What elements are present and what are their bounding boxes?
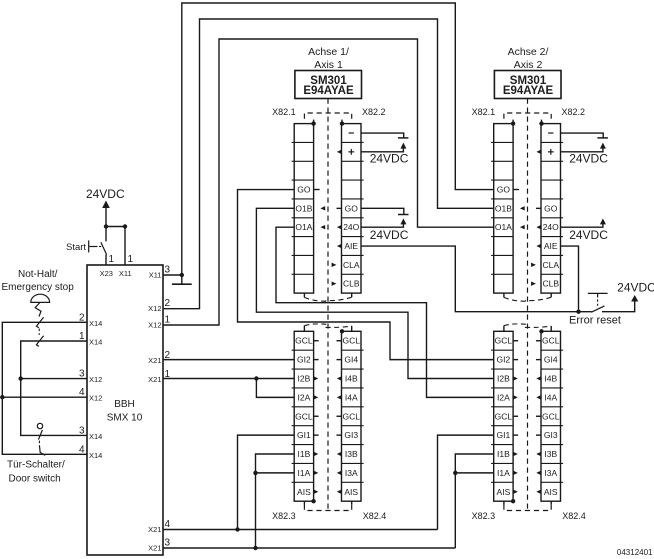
dashed curve above lower strips left (module 1) bbox=[304, 324, 330, 326]
junction dot X12-4 / left bus bbox=[0, 395, 4, 399]
svg-text:I4B: I4B bbox=[544, 373, 557, 383]
24VDC supply arrow top left bbox=[102, 201, 110, 227]
svg-text:X21: X21 bbox=[148, 356, 161, 365]
riser X21-3 to module 2 I1B (X82.3) bbox=[455, 454, 493, 548]
svg-text:I3A: I3A bbox=[544, 468, 557, 478]
svg-text:O1A: O1A bbox=[295, 222, 312, 232]
terminal minus symbol X82.2 (module 1) bbox=[349, 132, 354, 134]
svg-text:X82.2: X82.2 bbox=[362, 107, 386, 117]
arrow 24O X82.2 (module 1) bbox=[337, 225, 342, 229]
arrows X82.3 inputs (module 1) bbox=[314, 376, 319, 494]
terminal strip X82.3 (module 2) bbox=[491, 331, 513, 501]
pin label X12-2 bbox=[148, 298, 170, 313]
module boundary top bracket (module 1) bbox=[304, 113, 351, 119]
arrow CLA X82.2 (module 2) bbox=[531, 263, 536, 267]
svg-text:X82.2: X82.2 bbox=[562, 107, 586, 117]
svg-text:GO: GO bbox=[544, 203, 558, 213]
door switch contact 1 (X14-3 channel) bbox=[38, 430, 42, 440]
wire start contact to X23-1 bbox=[105, 255, 107, 265]
module boundary dashed centre line (module 2) bbox=[527, 99, 529, 511]
safety module SM301 E94AYAE (module 2) bbox=[494, 71, 561, 99]
svg-text:AIS: AIS bbox=[297, 487, 311, 497]
svg-text:4: 4 bbox=[79, 444, 85, 455]
arrow O1A X82.1 (module 1) bbox=[320, 225, 325, 229]
label Not-Halt/Emergency stop bbox=[2, 269, 75, 293]
pin label X21-4 bbox=[148, 519, 170, 534]
ticks X82.3 inner side (module 1) bbox=[314, 341, 319, 435]
safety module SM301 E94AYAE (module 1) bbox=[295, 71, 362, 99]
rail 2: X12-2 to module 2 O1B (X82.1) bbox=[163, 19, 494, 309]
terminal strip X82.2 (module 1) bbox=[342, 124, 364, 294]
reference potential bar below X11-3 bbox=[172, 275, 192, 284]
svg-text:E94AYAE: E94AYAE bbox=[503, 85, 554, 97]
svg-text:Achse 1/: Achse 1/ bbox=[308, 46, 349, 58]
ticks X82.3 inner side (module 2) bbox=[513, 341, 518, 435]
svg-text:24VDC: 24VDC bbox=[569, 151, 608, 165]
arrow plus X82.2 (module 1) bbox=[337, 150, 342, 154]
svg-text:X23: X23 bbox=[100, 269, 113, 278]
stub X82.2 top (module 1) bbox=[340, 120, 344, 126]
terminal strip X82.2 (module 2) bbox=[541, 124, 563, 294]
tick GO X82.2 (module 1) bbox=[337, 207, 342, 209]
wire plus terminal to 24VDC (module 1) bbox=[361, 143, 406, 152]
svg-text:AIE: AIE bbox=[344, 241, 358, 251]
svg-text:3: 3 bbox=[79, 425, 85, 436]
stub above X82.3 (module 2) bbox=[503, 326, 505, 332]
svg-text:24VDC: 24VDC bbox=[86, 187, 125, 201]
label Achse 2/ Axis 2 (module 2) bbox=[508, 46, 549, 71]
wire X21-2 to module 1 GI2 (X82.3) bbox=[163, 359, 294, 361]
svg-text:X21: X21 bbox=[148, 525, 161, 534]
svg-text:GI2: GI2 bbox=[497, 355, 511, 365]
svg-text:GCL: GCL bbox=[542, 411, 560, 421]
svg-text:CLA: CLA bbox=[542, 260, 559, 270]
start contact blade bbox=[101, 242, 107, 254]
svg-text:X21: X21 bbox=[148, 543, 161, 552]
pin label X21-3 bbox=[148, 538, 170, 553]
stub above X82.4 (module 2) bbox=[539, 326, 551, 333]
junction dot supply left bbox=[104, 224, 108, 228]
svg-text:I1B: I1B bbox=[298, 449, 311, 459]
svg-text:1: 1 bbox=[128, 254, 134, 265]
wire X21-3 bottom run bbox=[163, 547, 455, 549]
arrow O1A X82.1 (module 2) bbox=[520, 225, 525, 229]
svg-text:X82.3: X82.3 bbox=[472, 511, 496, 521]
svg-text:Axis 2: Axis 2 bbox=[514, 59, 543, 71]
door switch contact 2 (X14-4 channel) bbox=[39, 445, 45, 455]
svg-text:O1B: O1B bbox=[495, 203, 512, 213]
svg-text:GCL: GCL bbox=[295, 336, 313, 346]
svg-text:Not-Halt/: Not-Halt/ bbox=[18, 269, 58, 280]
arrows X82.3 inputs (module 2) bbox=[513, 376, 518, 494]
junction dot AIS bottom corner (module 2) bbox=[511, 499, 515, 503]
pin label X14-4 bbox=[79, 444, 102, 460]
wire branch to module 2 I1A (X82.3) bbox=[455, 472, 493, 474]
junction dot module 2 I1A branch bbox=[453, 471, 457, 475]
wire X12-4 from left bus bbox=[2, 396, 87, 398]
svg-text:GI3: GI3 bbox=[344, 430, 358, 440]
stub X82.1 top (module 2) bbox=[511, 120, 515, 126]
svg-text:4: 4 bbox=[79, 387, 85, 398]
svg-text:AIS: AIS bbox=[544, 487, 558, 497]
svg-text:GCL: GCL bbox=[343, 411, 361, 421]
pin label X14-3 bbox=[79, 425, 102, 441]
dashed curve below strips right (module 2) bbox=[525, 297, 551, 300]
error reset contact wire left part bbox=[579, 311, 592, 313]
svg-text:AIS: AIS bbox=[344, 487, 358, 497]
svg-text:GCL: GCL bbox=[495, 336, 513, 346]
wire module 1 O1B (X82.1) to module 2 I2B (X82.3) bbox=[256, 208, 493, 378]
wire plus terminal to 24VDC (module 2) bbox=[561, 143, 606, 152]
module boundary bottom bracket (module 2) bbox=[504, 501, 551, 510]
svg-text:Achse 2/: Achse 2/ bbox=[508, 46, 549, 58]
svg-text:I2B: I2B bbox=[497, 373, 510, 383]
svg-text:1: 1 bbox=[109, 254, 115, 265]
svg-text:O1B: O1B bbox=[295, 203, 312, 213]
mechanical link emergency stop contacts bbox=[38, 329, 40, 336]
module boundary top bracket (module 2) bbox=[504, 113, 551, 119]
tick GO X82.1 (module 1) bbox=[314, 189, 320, 191]
wire X12-3 from inner bus bbox=[21, 378, 87, 380]
svg-text:GCL: GCL bbox=[343, 336, 361, 346]
svg-text:X14: X14 bbox=[89, 319, 102, 328]
svg-text:GI1: GI1 bbox=[497, 430, 511, 440]
wire branch to module 1 I1A (X82.3) bbox=[256, 472, 295, 474]
svg-text:3: 3 bbox=[165, 265, 171, 276]
module boundary bottom bracket (module 1) bbox=[304, 501, 351, 510]
svg-text:GO: GO bbox=[497, 185, 511, 195]
error reset contact blade bbox=[591, 306, 604, 312]
pin label X12-3 bbox=[79, 369, 102, 385]
svg-text:GCL: GCL bbox=[295, 411, 313, 421]
svg-text:AIE: AIE bbox=[544, 241, 558, 251]
svg-text:GI4: GI4 bbox=[544, 355, 558, 365]
terminal strip X82.4 (module 2) bbox=[541, 331, 563, 501]
svg-text:X14: X14 bbox=[89, 338, 102, 347]
door switch roller bbox=[37, 423, 42, 428]
wire 24O terminal to 24VDC (module 1) bbox=[361, 218, 406, 227]
svg-text:24O: 24O bbox=[543, 222, 559, 232]
stub below X82.2 (module 1) bbox=[351, 293, 353, 297]
junction dot X12-3 / inner bus bbox=[19, 376, 23, 380]
junction dot X21-1 branch bbox=[254, 376, 258, 380]
svg-text:GI1: GI1 bbox=[297, 430, 311, 440]
arrow CLA X82.2 (module 1) bbox=[332, 263, 337, 267]
riser X21-4 to module 1 GI1 (X82.3) bbox=[238, 435, 295, 529]
svg-text:Error reset: Error reset bbox=[569, 315, 621, 327]
label Tuer-Schalter/Door switch bbox=[7, 460, 65, 485]
dashed curve above lower strips left (module 2) bbox=[504, 324, 530, 326]
svg-text:04312401: 04312401 bbox=[617, 548, 653, 557]
svg-text:GI3: GI3 bbox=[544, 430, 558, 440]
wire X11-3 to rail junction bbox=[163, 274, 182, 276]
svg-text:I2B: I2B bbox=[298, 373, 311, 383]
svg-text:X82.3: X82.3 bbox=[272, 511, 296, 521]
pin label X14-1 bbox=[79, 331, 102, 347]
svg-text:I1B: I1B bbox=[497, 449, 510, 459]
junction dot error reset bbox=[576, 310, 580, 314]
riser X21-4 to module 2 GI1 (X82.3) bbox=[438, 435, 494, 529]
pin label X21-2 bbox=[148, 350, 170, 365]
svg-text:I2A: I2A bbox=[497, 392, 510, 402]
inner bus lower segment to X14-3 bbox=[21, 379, 87, 436]
svg-text:X82.4: X82.4 bbox=[363, 511, 387, 521]
junction dot supply right bbox=[123, 224, 127, 228]
svg-text:X82.1: X82.1 bbox=[272, 107, 296, 117]
wire GO terminal to 0V (module 1) bbox=[361, 208, 409, 214]
junction dot X21-3 riser module 1 bbox=[253, 546, 257, 550]
svg-text:I4B: I4B bbox=[345, 373, 358, 383]
module boundary dashed centre line (module 1) bbox=[327, 99, 329, 511]
tick GO X82.1 (module 2) bbox=[513, 189, 519, 191]
svg-text:GO: GO bbox=[345, 203, 359, 213]
wire X21-4 bottom run bbox=[163, 529, 438, 531]
svg-text:X12: X12 bbox=[148, 320, 161, 329]
dashed curve below strips left (module 1) bbox=[304, 297, 330, 301]
arrows X82.4 inputs (module 1) bbox=[337, 376, 342, 494]
svg-text:X12: X12 bbox=[89, 394, 102, 403]
svg-text:I4A: I4A bbox=[544, 392, 557, 402]
wire minus terminal to 0V (module 2) bbox=[561, 133, 608, 138]
ticks X82.4 inner side (module 1) bbox=[337, 341, 342, 435]
svg-text:CLB: CLB bbox=[542, 279, 559, 289]
stub below X82.1 (module 2) bbox=[503, 293, 505, 297]
start button actuator bbox=[89, 240, 103, 252]
24VDC supply arrow error reset bbox=[631, 295, 638, 302]
svg-text:3: 3 bbox=[79, 369, 85, 380]
ticks X82.4 inner side (module 2) bbox=[536, 341, 541, 435]
svg-text:X82.1: X82.1 bbox=[472, 107, 496, 117]
svg-text:CLA: CLA bbox=[343, 260, 360, 270]
pin label X11-3 bbox=[149, 265, 171, 280]
svg-text:Tür-Schalter/: Tür-Schalter/ bbox=[7, 460, 65, 471]
pin label X11-1 bbox=[119, 254, 134, 278]
svg-text:I1A: I1A bbox=[497, 468, 510, 478]
terminal strip X82.1 (module 2) bbox=[491, 124, 513, 294]
svg-text:I4A: I4A bbox=[345, 392, 358, 402]
wire module 1 O1A (X82.1) to module 2 I2A (X82.3) bbox=[276, 227, 494, 397]
svg-text:GCL: GCL bbox=[495, 411, 513, 421]
rail 3: X12-1 to module 2 O1A (X82.1) bbox=[163, 39, 494, 325]
pin label X12-4 bbox=[79, 387, 102, 403]
svg-text:SMX 10: SMX 10 bbox=[107, 412, 143, 423]
arrow O1B X82.1 (module 1) bbox=[320, 206, 325, 210]
svg-text:X14: X14 bbox=[89, 451, 102, 460]
svg-text:24VDC: 24VDC bbox=[569, 228, 608, 242]
svg-text:O1A: O1A bbox=[495, 222, 512, 232]
terminal strip X82.4 (module 1) bbox=[342, 331, 364, 501]
rail 1: X11-3 to module 2 GO (X82.1) bbox=[182, 3, 494, 275]
svg-text:I3A: I3A bbox=[345, 468, 358, 478]
emergency stop contact 1 (X14-2 channel) bbox=[36, 317, 43, 328]
wire supply to start contact bbox=[105, 227, 107, 242]
svg-text:I3B: I3B bbox=[544, 449, 557, 459]
terminal plus symbol X82.2 (module 2) bbox=[548, 149, 554, 155]
wire minus terminal to 0V (module 1) bbox=[361, 133, 408, 138]
pin label X23-1 bbox=[100, 254, 115, 278]
svg-text:2: 2 bbox=[79, 312, 85, 323]
svg-text:E94AYAE: E94AYAE bbox=[303, 85, 354, 97]
wire X21-1 to module 1 I2B (X82.3) bbox=[163, 377, 294, 379]
error reset contact wire right part to 24VDC bbox=[602, 302, 635, 312]
svg-text:GCL: GCL bbox=[542, 336, 560, 346]
svg-text:I2A: I2A bbox=[298, 392, 311, 402]
terminal plus symbol X82.2 (module 1) bbox=[348, 149, 354, 155]
svg-text:X11: X11 bbox=[119, 269, 132, 278]
svg-text:Emergency stop: Emergency stop bbox=[2, 282, 75, 293]
arrow O1B X82.1 (module 2) bbox=[520, 206, 525, 210]
svg-text:CLB: CLB bbox=[343, 279, 360, 289]
stub X82.2 top (module 2) bbox=[539, 120, 543, 126]
stub below X82.2 (module 2) bbox=[550, 293, 552, 297]
arrow CLB X82.2 (module 2) bbox=[531, 281, 536, 285]
svg-text:1: 1 bbox=[165, 315, 171, 326]
svg-text:24O: 24O bbox=[343, 222, 359, 232]
terminal strip X82.1 (module 1) bbox=[292, 124, 314, 294]
svg-text:24VDC: 24VDC bbox=[617, 281, 654, 295]
stub above X82.4 (module 1) bbox=[340, 326, 352, 333]
riser X21-3 to module 1 I1B (X82.3) bbox=[256, 454, 295, 548]
pin label X14-2 bbox=[79, 312, 102, 328]
svg-text:I1A: I1A bbox=[298, 468, 311, 478]
dashed curve above lower strips right (module 1) bbox=[326, 326, 352, 327]
svg-text:X11: X11 bbox=[149, 270, 162, 279]
wire module 1 GO (X82.1) to module 2 GI2 (X82.3) bbox=[238, 190, 494, 360]
wire module 1 AIE (X82.2) to error reset line bbox=[361, 246, 579, 312]
arrow plus X82.2 (module 2) bbox=[536, 150, 541, 154]
junction dot X21-4 riser module 1 bbox=[235, 527, 239, 531]
svg-text:X12: X12 bbox=[89, 375, 102, 384]
svg-text:BBH: BBH bbox=[114, 399, 135, 410]
terminal strip X82.3 (module 1) bbox=[292, 331, 314, 501]
pin label X12-1 bbox=[148, 315, 170, 330]
wire X14-1 to emergency stop and inner bus bbox=[21, 341, 87, 379]
arrows X82.4 inputs (module 2) bbox=[536, 376, 541, 494]
svg-text:AIS: AIS bbox=[497, 487, 511, 497]
svg-text:X82.4: X82.4 bbox=[562, 511, 586, 521]
svg-text:24VDC: 24VDC bbox=[370, 228, 409, 242]
svg-text:3: 3 bbox=[165, 538, 171, 549]
junction dot X11-3 bbox=[180, 273, 184, 277]
label Achse 1/ Axis 1 (module 1) bbox=[308, 46, 349, 71]
dashed curve above lower strips right (module 2) bbox=[525, 326, 551, 327]
svg-text:GO: GO bbox=[297, 185, 311, 195]
svg-text:Axis 1: Axis 1 bbox=[314, 59, 343, 71]
arrow AIE X82.2 (module 1) bbox=[337, 244, 342, 248]
svg-text:X21: X21 bbox=[148, 375, 161, 384]
wire 24O terminal to 24VDC (module 2) bbox=[561, 218, 606, 227]
wire X14-2 to emergency stop and left bus bbox=[2, 322, 87, 397]
junction dot module 1 I1A branch bbox=[253, 471, 257, 475]
wire module 2 AIE (X82.2) down to error reset line bbox=[561, 246, 579, 312]
arrow 24O X82.2 (module 2) bbox=[536, 225, 541, 229]
error reset push actuator bbox=[588, 293, 608, 305]
stub X82.1 top (module 1) bbox=[311, 120, 315, 126]
svg-text:Start: Start bbox=[66, 242, 86, 253]
svg-text:X12: X12 bbox=[148, 304, 161, 313]
junction dot AIS bottom corner (module 1) bbox=[311, 499, 315, 503]
emergency stop mushroom button bbox=[31, 294, 50, 316]
arrow AIE X82.2 (module 2) bbox=[536, 244, 541, 248]
svg-text:I3B: I3B bbox=[345, 449, 358, 459]
terminal minus symbol X82.2 (module 2) bbox=[548, 132, 553, 134]
svg-text:24VDC: 24VDC bbox=[370, 151, 409, 165]
svg-text:2: 2 bbox=[165, 298, 171, 309]
safety PLC BBH SMX 10 bbox=[87, 265, 163, 555]
pin label X21-1 bbox=[148, 369, 170, 384]
tick GO X82.2 (module 2) bbox=[536, 207, 541, 209]
svg-text:GI2: GI2 bbox=[297, 355, 311, 365]
dashed curve below strips right (module 1) bbox=[326, 297, 352, 300]
svg-text:GI4: GI4 bbox=[344, 355, 358, 365]
left bus lower segment to X14-4 bbox=[2, 397, 87, 454]
stub below X82.1 (module 1) bbox=[303, 293, 305, 297]
svg-text:Door switch: Door switch bbox=[9, 474, 61, 485]
wire branch to module 1 I2A (X82.3) bbox=[256, 378, 294, 397]
arrow CLB X82.2 (module 1) bbox=[332, 281, 337, 285]
stub above X82.3 (module 1) bbox=[303, 326, 305, 332]
svg-text:4: 4 bbox=[165, 519, 171, 530]
svg-text:1: 1 bbox=[79, 331, 85, 342]
dashed curve below strips left (module 2) bbox=[504, 297, 530, 301]
emergency stop contact 2 (X14-1 channel) bbox=[36, 336, 43, 347]
svg-text:X14: X14 bbox=[89, 432, 102, 441]
wire supply branch to X23-1 and X11-1 bbox=[106, 227, 125, 266]
mechanical link door switch contacts bbox=[38, 441, 40, 445]
